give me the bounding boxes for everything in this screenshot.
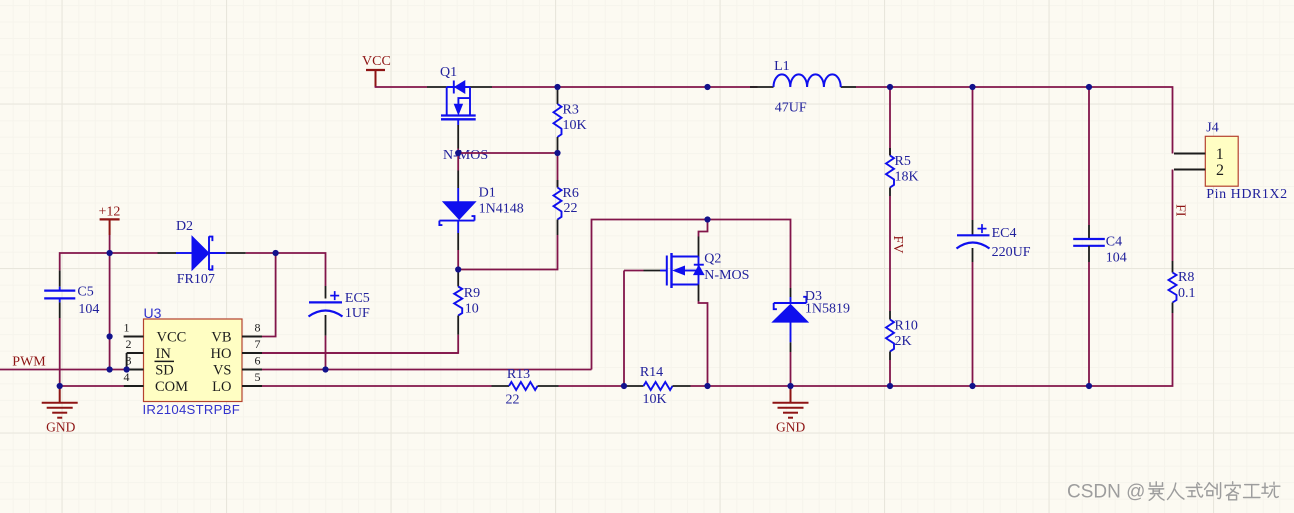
svg-text:PWM: PWM	[12, 355, 46, 370]
wire gate column down to rail	[623, 271, 625, 387]
junction rail at R5	[887, 84, 893, 90]
label GND left	[46, 420, 75, 435]
wire ground rail EC4 to C4	[973, 385, 1090, 387]
svg-text:EC5: EC5	[345, 291, 370, 306]
wire rail EC4 to C4	[973, 86, 1090, 88]
wire LO line pin5 to R13	[262, 385, 492, 387]
svg-text:1UF: 1UF	[345, 306, 370, 321]
net label FI	[1172, 204, 1187, 217]
diode D3 1N5819 schottky	[773, 288, 809, 352]
svg-text:R6: R6	[563, 186, 579, 201]
resistor R14	[624, 382, 691, 390]
pin 5 LO of U3	[212, 370, 262, 395]
node N-MOS junction at Q1 gate	[455, 150, 461, 156]
power symbol +12	[98, 204, 120, 219]
pin 3 SD of U3 with overbar	[126, 354, 175, 379]
wire pin1 node down to PWM line	[109, 337, 111, 370]
wire C4 to ground rail	[1088, 262, 1090, 386]
ground symbol right GND	[773, 386, 809, 418]
svg-text:5: 5	[255, 370, 261, 384]
svg-text:R8: R8	[1178, 270, 1194, 285]
wire rail down to EC4	[972, 87, 974, 220]
svg-text:FV: FV	[890, 236, 905, 254]
label EC5 1UF	[345, 291, 370, 321]
svg-text:VB: VB	[211, 329, 231, 345]
svg-text:1N5819: 1N5819	[805, 301, 850, 316]
svg-text:VCC: VCC	[157, 329, 187, 345]
junction ground rail at C4	[1086, 383, 1092, 389]
wire L1 to output rail	[856, 86, 890, 88]
svg-text:Pin HDR1X2: Pin HDR1X2	[1206, 187, 1287, 202]
connector J4 body	[1205, 136, 1238, 186]
wire switch node to D3 top	[708, 220, 791, 289]
svg-text:22: 22	[564, 201, 578, 216]
label Q2 N-MOS	[704, 251, 749, 283]
wire ground rail D3 to R10	[791, 385, 891, 387]
diode D2 FR107	[158, 236, 246, 270]
svg-text:EC4: EC4	[992, 226, 1017, 241]
resistor R10	[886, 311, 894, 360]
wire D3 anode to rail	[790, 352, 792, 386]
watermark CJK characters	[1149, 482, 1280, 500]
svg-text:GND: GND	[776, 420, 805, 435]
svg-text:IN: IN	[156, 346, 172, 362]
wire top rail Q1 to R3 column	[492, 86, 558, 88]
wire VB node down to pin 8	[262, 253, 276, 337]
wire N-MOS node down to D1	[457, 153, 459, 171]
svg-text:COM: COM	[155, 379, 188, 395]
junction source node on rail	[704, 383, 710, 389]
junction ground rail at R10	[887, 383, 893, 389]
svg-text:2: 2	[126, 337, 132, 351]
svg-text:R13: R13	[507, 367, 530, 382]
junction PWM at x110	[107, 366, 113, 372]
resistor R8	[1169, 261, 1177, 313]
junction pin1 VCC	[107, 333, 113, 339]
label R5 18K	[895, 154, 919, 184]
label PWM net	[12, 355, 46, 370]
svg-text:N-MOS: N-MOS	[704, 268, 749, 283]
wire ground rail R10 to EC4	[890, 385, 973, 387]
wire top rail R3 to switch node	[558, 86, 708, 88]
label D3 1N5819	[805, 289, 850, 317]
label U3	[144, 305, 162, 321]
svg-text:R10: R10	[895, 319, 918, 334]
svg-text:CSDN @: CSDN @	[1067, 482, 1145, 503]
wire pin 4 COM to ground	[60, 385, 124, 387]
wire rail down to R5	[889, 87, 891, 156]
pin 2 IN of U3	[126, 337, 172, 362]
junction ground rail at EC4	[969, 383, 975, 389]
label GND right	[776, 420, 805, 435]
wire rail R5 to EC4	[890, 86, 973, 88]
svg-text:C5: C5	[77, 284, 93, 299]
transistor Q2 N-MOS low side	[644, 237, 704, 302]
svg-text:47UF: 47UF	[775, 101, 807, 116]
label Pin HDR1X2	[1206, 187, 1287, 202]
label R9 10	[464, 286, 480, 317]
wire Q1 gate to node	[457, 149, 459, 154]
svg-text:Q2: Q2	[704, 251, 721, 266]
svg-text:6: 6	[255, 354, 261, 368]
ground symbol left GND	[42, 386, 78, 418]
svg-text:D2: D2	[176, 219, 193, 234]
svg-text:220UF: 220UF	[992, 245, 1031, 260]
svg-text:10K: 10K	[563, 118, 587, 133]
label N-MOS net (Q1)	[443, 148, 488, 163]
svg-text:18K: 18K	[895, 169, 919, 184]
junction rail at EC4	[969, 84, 975, 90]
wire ground rail Q2 to D3	[708, 385, 791, 387]
wire rail C4 to J4 corner	[1089, 87, 1173, 154]
pin 4 COM of U3	[124, 370, 189, 395]
wire C5 top corner to D2 anode	[60, 253, 158, 270]
wire D2 cathode to VB node	[246, 252, 276, 254]
svg-text:R14: R14	[640, 365, 663, 380]
wire R13 to gate node	[559, 385, 625, 387]
net label FV	[890, 236, 905, 254]
label D1 1N4148	[479, 186, 524, 217]
wire VS line pin6 to switch column	[262, 369, 592, 371]
resistor R3	[554, 87, 562, 153]
wire top rail switch node to L1	[708, 86, 758, 88]
wire Q2 gate to gate column	[624, 270, 644, 272]
pin 1 VCC of U3	[124, 321, 187, 346]
label R6 22	[563, 186, 579, 216]
svg-text:R5: R5	[895, 154, 911, 169]
svg-text:GND: GND	[46, 420, 75, 435]
svg-text:R3: R3	[563, 103, 579, 118]
capacitor C4 104	[1073, 225, 1105, 262]
svg-text:LO: LO	[212, 379, 231, 395]
svg-text:VS: VS	[213, 362, 232, 378]
label C5 104	[77, 284, 99, 317]
label R14 10K	[640, 365, 667, 407]
svg-text:FI: FI	[1172, 204, 1187, 217]
svg-text:FR107: FR107	[177, 272, 215, 287]
wire R14 to source node	[691, 385, 708, 387]
junction VB node	[273, 250, 279, 256]
capacitor C5 104	[44, 270, 75, 318]
pin 2 of J4	[1174, 162, 1224, 179]
wire switch node down to Q2 drain	[699, 220, 708, 237]
label EC4 220UF	[992, 226, 1031, 260]
wire Q2 source to rail	[699, 301, 708, 386]
svg-text:D1: D1	[479, 186, 496, 201]
svg-text:2K: 2K	[895, 334, 912, 349]
resistor R13	[492, 382, 559, 390]
svg-text:7: 7	[255, 337, 261, 351]
svg-text:0.1: 0.1	[1178, 286, 1196, 301]
label IR2104STRPBF	[143, 402, 241, 417]
wire PWM input line	[0, 369, 127, 371]
wire R8 bottom to ground rail corner	[1089, 313, 1173, 386]
wire D1 to junction	[457, 250, 459, 270]
svg-text:Q1: Q1	[440, 65, 457, 80]
resistor R5	[886, 148, 894, 196]
svg-text:1N4148: 1N4148	[479, 202, 524, 217]
svg-text:10K: 10K	[642, 392, 666, 407]
resistor R9	[454, 270, 462, 335]
label R13 22	[506, 367, 531, 408]
label C4 104	[1106, 234, 1127, 265]
resistor R6	[554, 153, 562, 235]
label L1 47UF	[774, 59, 807, 116]
diode D1 1N4148	[439, 171, 475, 251]
label R3 10K	[563, 103, 587, 134]
junction at R3 bottom	[554, 150, 560, 156]
svg-text:SD: SD	[155, 362, 174, 378]
junction EC5 on VS line	[322, 366, 328, 372]
wire R10 to ground rail	[889, 360, 891, 386]
capacitor EC4 220UF polarized	[957, 220, 990, 262]
svg-text:L1: L1	[774, 59, 790, 74]
svg-text:VCC: VCC	[362, 54, 391, 69]
label R8 0.1	[1178, 270, 1196, 301]
pin 7 HO of U3	[211, 337, 262, 362]
wire N-MOS node to R3 bottom	[458, 152, 557, 154]
junction at pin 3	[124, 366, 130, 372]
junction rail at C4	[1086, 84, 1092, 90]
junction top rail at R3	[554, 84, 560, 90]
junction D3 on rail	[787, 383, 793, 389]
svg-text:1: 1	[124, 321, 130, 335]
svg-text:1: 1	[1216, 146, 1224, 163]
wire HO line pin7 to R9	[262, 352, 458, 354]
label D2 FR107	[176, 219, 215, 287]
junction top rail switch node	[704, 84, 710, 90]
pin 1 of J4	[1174, 146, 1224, 163]
svg-text:2: 2	[1216, 162, 1224, 179]
watermark CSDN	[1067, 482, 1145, 503]
wire VCC to Q1 drain	[376, 86, 428, 87]
label Q1	[440, 65, 457, 80]
wire rail down to C4	[1088, 87, 1090, 225]
svg-text:8: 8	[255, 321, 261, 335]
svg-text:104: 104	[1106, 251, 1127, 266]
pin 6 VS of U3	[213, 354, 262, 379]
svg-text:+12: +12	[98, 204, 120, 219]
svg-text:104: 104	[78, 302, 99, 317]
svg-text:22: 22	[506, 393, 520, 408]
power symbol VCC	[362, 54, 391, 87]
svg-text:10: 10	[465, 302, 479, 317]
wire +12 node down to pin1	[109, 253, 111, 337]
wire EC4 to ground rail	[972, 262, 974, 386]
wire R6 bottom to D1 junction	[458, 235, 557, 270]
junction gate node on rail	[621, 383, 627, 389]
wire +12 down to VCC node	[109, 219, 111, 253]
wire J4 pin2 down to R8	[1172, 170, 1174, 262]
svg-text:HO: HO	[211, 346, 232, 362]
junction D1 R9 R6 node	[455, 266, 461, 272]
transistor Q1 N-MOS high side	[427, 81, 492, 149]
svg-text:U3: U3	[144, 305, 162, 321]
wire VS column up to switch node	[592, 220, 708, 370]
op-amp U3 IR2104 body	[144, 319, 243, 402]
svg-text:R9: R9	[464, 286, 480, 301]
pin 8 VB of U3	[211, 321, 262, 346]
svg-text:N-MOS: N-MOS	[443, 148, 488, 163]
wire R5 to R10 (net FV)	[889, 196, 891, 311]
wire R9 bottom to HO line	[262, 335, 458, 353]
wire IN tied to SD	[126, 353, 128, 370]
wire EC5 bottom to VS line	[325, 336, 327, 370]
label R10 2K	[895, 319, 918, 350]
label J4	[1206, 120, 1218, 135]
junction switch node Q2 drain	[704, 216, 710, 222]
svg-text:C4: C4	[1106, 234, 1122, 249]
junction COM GND node	[57, 383, 63, 389]
junction +12 node	[107, 250, 113, 256]
capacitor EC5 1UF polarized	[309, 286, 343, 336]
inductor L1	[750, 74, 856, 87]
svg-text:J4: J4	[1206, 120, 1218, 135]
wire C5 bottom to COM node	[59, 318, 61, 386]
svg-text:IR2104STRPBF: IR2104STRPBF	[143, 402, 241, 417]
wire VB node to EC5 top	[276, 253, 326, 286]
